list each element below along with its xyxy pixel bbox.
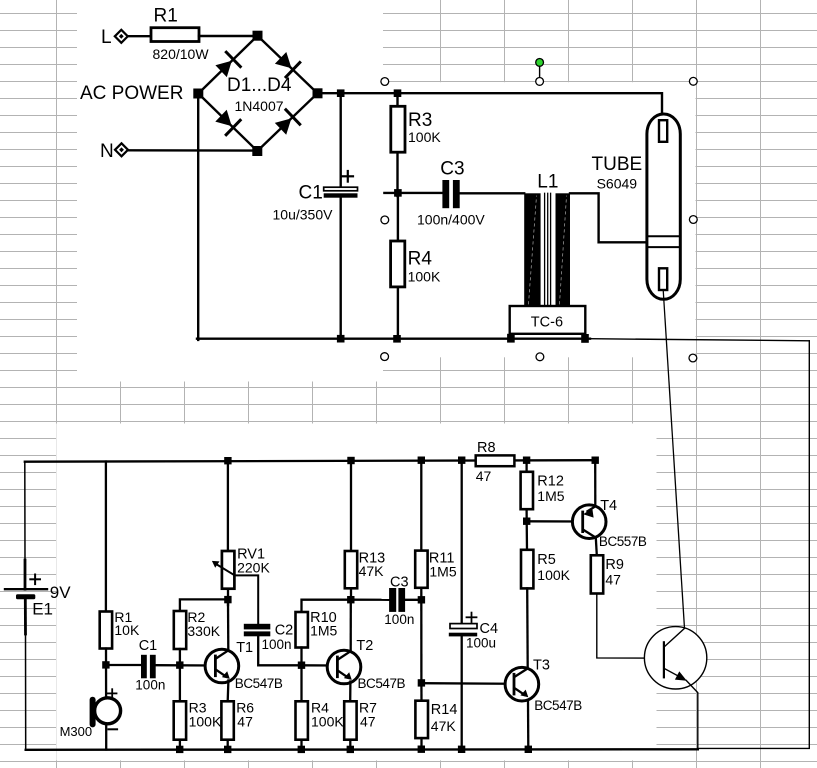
svg-text:47: 47: [360, 713, 376, 729]
svg-text:1M5: 1M5: [429, 564, 456, 580]
resistor R1: [151, 28, 199, 42]
resistor R4 (amp): [296, 701, 308, 739]
handle mid-right: [689, 216, 697, 224]
wire R7 to rail: [349, 740, 351, 750]
resistor R5: [521, 550, 533, 589]
wire R13 bottom: [350, 588, 352, 599]
svg-text:47K: 47K: [431, 718, 457, 734]
capacitor C1 plus sign: [343, 171, 353, 182]
handle top-right: [689, 77, 697, 85]
wire R3 top stub: [396, 93, 398, 106]
node R3 R4 mid: [394, 189, 402, 197]
node R12 rail: [523, 457, 530, 464]
node RV1 bottom: [224, 596, 231, 603]
wire C1 to T1 base: [156, 664, 214, 667]
canvas C (bottom amplifier circuit image): [56, 424, 656, 761]
svg-text:E1: E1: [32, 600, 53, 619]
bottom rail of top circuit: [197, 338, 590, 340]
resistor R10: [296, 612, 308, 648]
svg-text:TUBE: TUBE: [592, 154, 643, 175]
tube bottom diagonal wire to output transistor: [663, 290, 684, 628]
svg-text:100K: 100K: [311, 713, 344, 729]
svg-text:1N4007: 1N4007: [235, 98, 284, 114]
capacitor C4 top plate: [450, 624, 477, 629]
wire T3 base: [421, 682, 513, 685]
svg-text:100n/400V: 100n/400V: [417, 212, 485, 228]
wire T1 collector up: [227, 600, 230, 651]
svg-text:L: L: [101, 27, 112, 48]
node R13 rail: [347, 457, 354, 464]
wire T2 collector up: [350, 600, 352, 651]
wire L to R1: [128, 35, 151, 37]
node R11 rail: [418, 457, 425, 464]
node T2 base: [298, 662, 305, 669]
wire R5 top: [526, 521, 529, 550]
svg-text:C3: C3: [390, 574, 409, 590]
svg-text:D1...D4: D1...D4: [227, 75, 292, 96]
svg-text:1M5: 1M5: [537, 488, 564, 504]
svg-text:47K: 47K: [359, 563, 385, 579]
svg-text:BC547B: BC547B: [235, 676, 283, 691]
handle top-center: [536, 78, 544, 86]
wire R4 top: [397, 196, 399, 241]
wire C3 to L1: [460, 192, 525, 194]
resistor R14: [415, 701, 428, 738]
resistor R2: [174, 611, 186, 649]
wire T4 base: [527, 520, 582, 523]
wire RV1 wiper to C2: [235, 575, 258, 623]
resistor R7: [344, 701, 356, 739]
transistor T3: [505, 667, 539, 701]
wire C1 column lower: [340, 198, 342, 339]
svg-text:R4: R4: [408, 249, 433, 270]
svg-text:C1: C1: [139, 638, 158, 654]
wire L1 right to tube: [570, 193, 647, 242]
left wire to bottom rail: [25, 634, 27, 750]
svg-text:100u: 100u: [466, 636, 496, 651]
svg-text:10K: 10K: [114, 622, 140, 638]
rotation handle green: [536, 59, 544, 67]
battery E1 long plate: [5, 588, 47, 590]
node R4 bottom: [393, 335, 401, 343]
svg-text:220K: 220K: [237, 560, 270, 576]
node RV1 rail: [224, 457, 231, 464]
svg-text:T2: T2: [356, 638, 373, 654]
diode D top-left: [215, 52, 240, 77]
svg-text:TC-6: TC-6: [531, 315, 563, 331]
node R1 C1: [102, 661, 109, 668]
svg-text:BC547B: BC547B: [534, 698, 582, 713]
handle bottom-left: [381, 353, 389, 361]
svg-text:R1: R1: [154, 6, 178, 27]
svg-text:R3: R3: [408, 110, 432, 131]
wire R2 top hook: [180, 599, 228, 611]
wire base node to T2: [302, 664, 337, 667]
node C1 bottom: [337, 335, 345, 343]
potentiometer RV1 body: [222, 551, 235, 589]
RV1 wiper arrow: [212, 561, 235, 576]
svg-text:100K: 100K: [408, 269, 441, 285]
capacitor C4 plus: [467, 613, 477, 622]
diode D bottom-right: [275, 110, 300, 135]
wire RV1 column from rail: [227, 461, 229, 551]
node T4 base: [523, 518, 530, 525]
node T3 base: [418, 679, 425, 686]
wire R6 to rail: [227, 740, 229, 750]
terminal L diamond: [115, 30, 128, 43]
svg-text:T4: T4: [600, 498, 617, 514]
wire R4 bottom: [397, 287, 399, 339]
svg-text:100K: 100K: [408, 129, 441, 145]
wire RV1 bottom: [227, 589, 229, 605]
handle bottom-center: [536, 353, 544, 361]
wire node to C1: [106, 664, 141, 666]
transistor T4 (PNP): [572, 505, 606, 539]
battery E1 short thick plate: [16, 594, 35, 599]
tube bottom electrode: [659, 268, 667, 290]
wire R4 to rail: [300, 740, 302, 750]
rotation stem: [539, 67, 541, 78]
bottom ground rail: [26, 748, 698, 751]
tube top electrode: [659, 120, 667, 142]
node T3 rail: [525, 746, 532, 753]
transistor T1: [205, 649, 239, 683]
diode D top-right: [275, 52, 300, 77]
node R3 top: [394, 89, 402, 97]
svg-text:M300: M300: [60, 724, 93, 739]
canvas A (top-left circuit image): [77, 0, 383, 382]
capacitor C1 top plate: [324, 187, 358, 191]
bridge rectifier D1...D4 edges: [198, 36, 317, 151]
wire R1 to bridge top: [199, 35, 258, 37]
node T4 emitter rail: [592, 457, 599, 464]
wire bridge left corner down: [197, 99, 199, 340]
resistor R8: [476, 455, 515, 466]
wire R14 to rail: [420, 738, 422, 749]
resistor R13: [345, 551, 357, 588]
transformer L1 right winding: [556, 193, 571, 306]
svg-text:AC POWER: AC POWER: [80, 83, 183, 104]
wire T1 emitter down: [227, 681, 230, 702]
wire node to C3: [351, 599, 389, 601]
wire R11 column from rail: [420, 460, 422, 550]
wire C3 to R11 node: [405, 599, 421, 601]
wire R10 top hook: [302, 600, 351, 612]
svg-text:9V: 9V: [50, 583, 71, 602]
left battery wire upper: [24, 462, 26, 560]
wire T3 emitter down: [527, 700, 530, 749]
wire T4 emitter up: [594, 460, 596, 505]
svg-text:L1: L1: [537, 172, 558, 193]
L1 winding hatch: [529, 196, 567, 304]
node C1 top: [337, 89, 345, 97]
svg-text:R14: R14: [431, 702, 458, 718]
tube capsule: [647, 114, 680, 299]
resistor R9: [591, 555, 603, 593]
terminal N diamond: [115, 143, 128, 156]
battery plus sign: [30, 575, 40, 585]
svg-text:10u/350V: 10u/350V: [273, 207, 334, 223]
capacitor C1 bottom plate: [324, 193, 358, 197]
right side loop wire down: [698, 341, 810, 749]
wire T2 emitter down: [349, 682, 351, 702]
svg-text:T3: T3: [533, 657, 550, 673]
output transistor (tube driver): [644, 627, 706, 750]
node R7 rail: [347, 746, 354, 753]
svg-text:BC547B: BC547B: [358, 676, 406, 691]
node R4 rail: [298, 746, 305, 753]
mic minus sign: [109, 728, 118, 730]
svg-text:100n: 100n: [384, 612, 414, 627]
capacitor C1 (amp) plates: [141, 655, 156, 679]
node T2 collector: [347, 596, 354, 603]
wire R5 bottom to T3 collector: [526, 588, 529, 668]
node C4 rail bottom: [458, 746, 465, 753]
selection handles of canvas B: [381, 59, 697, 362]
svg-text:100K: 100K: [189, 713, 222, 729]
wire C2 bottom to base node: [258, 636, 299, 665]
canvas B (selected tube circuit image): [383, 82, 696, 357]
wire R1 to mic: [105, 649, 107, 700]
battery lower lead: [24, 599, 27, 634]
svg-text:820/10W: 820/10W: [153, 46, 210, 62]
capacitor C3 (amp) plates: [389, 588, 405, 612]
TC-6 box: [510, 306, 586, 334]
wire mid node stub left: [384, 192, 442, 194]
svg-text:1M5: 1M5: [310, 623, 337, 639]
svg-text:100n: 100n: [135, 677, 165, 692]
svg-text:47: 47: [605, 571, 621, 587]
svg-text:C1: C1: [299, 183, 323, 204]
svg-text:R5: R5: [537, 552, 556, 568]
resistor R4: [391, 241, 405, 287]
wire R3 to rail: [179, 740, 181, 750]
svg-text:47: 47: [237, 713, 253, 729]
left battery wire to plate: [24, 560, 27, 589]
svg-text:C4: C4: [480, 621, 499, 637]
wire R14 top: [420, 683, 422, 701]
node C4 rail top: [458, 457, 465, 464]
top rail wire bridge to tube: [318, 93, 663, 120]
wire C4 column lower: [461, 635, 463, 749]
svg-text:N: N: [100, 141, 114, 162]
wire mic to rail: [105, 722, 107, 750]
handle mid-left: [381, 216, 389, 224]
wire R13 column from rail: [350, 461, 352, 552]
diode D bottom-left: [215, 110, 240, 135]
svg-text:S6049: S6049: [597, 175, 638, 191]
node R2 bottom: [176, 661, 183, 668]
resistor R6: [221, 701, 233, 739]
microphone M300 back plate: [90, 700, 96, 725]
capacitor C3 plates (top circuit): [442, 180, 459, 208]
capacitor C2 plates: [244, 624, 270, 637]
svg-text:T1: T1: [236, 640, 253, 656]
bridge corner nodes: [193, 31, 322, 156]
wire T4 collector to R9: [596, 538, 597, 556]
svg-text:47: 47: [476, 468, 492, 484]
transistor T2: [327, 650, 361, 684]
resistor R12: [521, 472, 533, 509]
svg-text:BC557B: BC557B: [599, 534, 647, 549]
wire C4 column upper: [461, 460, 463, 622]
wire R2 bottom: [179, 649, 181, 701]
microphone M300 body: [95, 698, 121, 724]
transformer L1 core lines: [545, 193, 551, 306]
top supply rail: [25, 460, 595, 462]
transformer L1 left winding: [524, 193, 540, 306]
svg-text:R8: R8: [477, 440, 496, 456]
wire N to bridge bottom: [128, 149, 252, 152]
node R6 rail: [224, 746, 231, 753]
wire R9 down to output base: [597, 594, 664, 659]
svg-text:C3: C3: [440, 159, 464, 180]
resistor R1 (amp): [100, 612, 112, 649]
wire C1 column upper: [340, 93, 342, 187]
resistor R3 (amp): [174, 701, 186, 739]
svg-text:330K: 330K: [187, 623, 220, 639]
wire R12 bottom: [525, 509, 527, 521]
handle top-left: [381, 78, 389, 86]
wire R1 column: [105, 462, 107, 612]
mic plus sign: [108, 689, 117, 697]
node R3 rail: [176, 746, 183, 753]
svg-text:100K: 100K: [537, 567, 570, 583]
wire R12 top: [525, 460, 527, 472]
handle bottom-right: [689, 354, 697, 362]
wire R3 bottom: [396, 152, 398, 196]
capacitor C4 bottom plate: [449, 633, 477, 637]
node R14 rail: [418, 746, 425, 753]
wire R10 bottom: [300, 648, 302, 702]
bottom rail thin extension to right edge: [590, 339, 809, 341]
TC-6 legs nodes: [507, 334, 589, 343]
wire R11 bottom: [420, 588, 422, 683]
resistor R3: [391, 106, 405, 152]
svg-text:100n: 100n: [262, 637, 292, 652]
tube divider lines: [648, 236, 680, 247]
resistor R11: [415, 551, 427, 588]
node C3 R11: [418, 596, 425, 603]
